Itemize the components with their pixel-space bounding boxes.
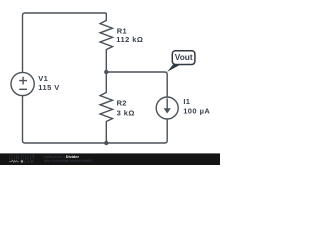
svg-text:Vout: Vout (175, 52, 193, 62)
junction node A (R1/R2/I1) (104, 70, 108, 74)
svg-text:LAB: LAB (24, 159, 34, 164)
svg-text:R2: R2 (117, 99, 127, 108)
wire: V1 bottom down, across bottom, up to I1 bottom (23, 95, 168, 143)
flag Vout callout tail (167, 64, 181, 72)
voltage source V1 (11, 72, 34, 95)
svg-text:3 kΩ: 3 kΩ (117, 108, 135, 117)
svg-text:115 V: 115 V (38, 83, 59, 92)
svg-text:112 kΩ: 112 kΩ (116, 35, 143, 44)
resistor R2 (100, 72, 112, 143)
svg-text:I1: I1 (183, 97, 190, 106)
watermark bar (0, 153, 220, 165)
svg-text:R1: R1 (117, 26, 127, 35)
wire: V1 top up and across to R1 top (23, 13, 107, 73)
resistor R1 (100, 13, 112, 72)
svg-text:http://circuitlab.com/c/9nb63: http://circuitlab.com/c/9nb63 (44, 158, 92, 163)
svg-text:100 µA: 100 µA (183, 107, 210, 116)
flag Vout box (172, 51, 195, 65)
wire: node A to I1 top (106, 72, 167, 97)
junction at R2 bottom (104, 141, 108, 145)
current source I1 (156, 97, 178, 119)
svg-text:V1: V1 (38, 74, 48, 83)
watermark logo waveform + LAB (9, 160, 19, 162)
